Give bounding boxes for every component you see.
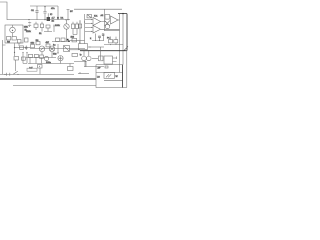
resistor R7 (71, 22, 74, 35)
capacitor C1 (31, 6, 39, 20)
wire crossing X (105, 21, 111, 27)
svg-text:MIC: MIC (24, 27, 28, 29)
resistor R25 (40, 55, 44, 64)
wire y73.6 segment (78, 72, 89, 74)
svg-text:D1: D1 (61, 18, 65, 20)
wire q3 drop (41, 52, 43, 55)
capacitor C8 (17, 40, 21, 46)
switch S1 (13, 71, 18, 74)
capacitor C2 (43, 6, 46, 20)
wire y57.5 (26, 57, 56, 59)
mark small (105, 66, 108, 68)
shield box (5, 25, 23, 43)
svg-text:C1: C1 (31, 10, 35, 12)
svg-text:1u: 1u (53, 45, 56, 47)
resistor R13 (31, 45, 35, 48)
node VCC vertical x68 (67, 10, 74, 21)
right lower box (104, 56, 117, 64)
svg-text:A2: A2 (101, 14, 104, 17)
svg-text:2k: 2k (52, 21, 55, 23)
resistor R19 with X (87, 15, 92, 18)
battery B1 (28, 22, 31, 27)
svg-text:k: k (90, 38, 92, 40)
node B (44, 19, 45, 20)
wire pair x23 x27 (22, 52, 28, 64)
resistor R17 (61, 38, 65, 41)
wire y41.5 (52, 41, 70, 43)
svg-text:47u: 47u (51, 8, 55, 10)
wire q4 drop (51, 52, 53, 58)
speaker box (104, 72, 115, 78)
IC U1 (47, 17, 50, 21)
resistor R15 (46, 44, 50, 47)
diode D1 (57, 17, 67, 21)
resistor R14 (36, 40, 40, 45)
wire x84.5 vertical (84, 14, 86, 44)
box empty (79, 44, 88, 50)
wire input top-left (0, 2, 29, 20)
svg-text:P1: P1 (107, 38, 110, 40)
wire main rail y19.6 (29, 19, 70, 21)
wire y44.6 (104, 44, 123, 46)
resistor R21 (109, 37, 113, 43)
transistor Q1 (10, 25, 16, 37)
wire y47.6 (15, 47, 31, 49)
connector J2 (87, 51, 92, 61)
wire x119.5 vertical (119, 14, 121, 73)
wire x79.5 drop (79, 41, 80, 44)
label box (27, 68, 37, 71)
wire bottom y74.4 (0, 73, 74, 76)
wire x58 drop (57, 6, 59, 20)
wire y61.5 (74, 61, 87, 67)
resistor R5 (40, 22, 43, 32)
wire y30.5 (105, 30, 120, 32)
resistor R18 (72, 38, 77, 42)
wire y58 right (92, 57, 98, 59)
svg-text:IC1: IC1 (94, 16, 98, 18)
resistor R12 (14, 57, 19, 72)
wire x58 (53, 44, 59, 56)
capacitor C3 (25, 38, 29, 42)
resistor R1a (7, 37, 11, 41)
input dots (91, 19, 92, 32)
cluster lower (38, 65, 43, 69)
svg-text:W: W (116, 76, 119, 78)
op-amp U2b (93, 26, 101, 34)
svg-text:4.7: 4.7 (52, 17, 56, 19)
svg-text:100n: 100n (46, 62, 52, 64)
resistor R27 (110, 37, 118, 46)
wire x100.5 (100, 47, 102, 60)
wire x40 drop (39, 68, 41, 74)
resistor R22 (70, 53, 78, 66)
wire dark y50.7 (80, 50, 127, 52)
transistor Q2 (64, 20, 69, 41)
right box left edge (104, 9, 106, 31)
transistor Q6 (44, 56, 48, 60)
meter M1 (58, 56, 63, 64)
capacitor C4 (44, 25, 52, 32)
wire y66.6 (84, 61, 104, 67)
wire y63.5 (28, 63, 74, 65)
wire x54 (54, 25, 55, 33)
wire top rail left (30, 5, 58, 7)
svg-text:9V: 9V (70, 11, 73, 13)
wire x80 vertical (79, 20, 81, 44)
wire center y48.5 (30, 48, 85, 50)
op-amp U3 (111, 16, 119, 24)
svg-text:Tr: Tr (80, 54, 82, 57)
wire y85.5 (13, 85, 96, 87)
wire left vertical (3, 40, 6, 74)
node A (28, 19, 29, 20)
svg-text:10k: 10k (31, 43, 35, 45)
wire dark top right (118, 13, 127, 51)
resistor R11 (20, 46, 24, 49)
svg-text:4u7: 4u7 (29, 68, 33, 70)
resistor R26 (99, 56, 104, 61)
svg-text:100k: 100k (55, 25, 61, 27)
resistor R23 (29, 54, 33, 63)
arrow diag (124, 46, 128, 50)
pot VR1 (64, 46, 70, 52)
transistor Q4 (49, 46, 55, 52)
resistor R16 (56, 38, 60, 41)
wire opamp inputs (85, 20, 93, 32)
connector J1 (82, 51, 87, 61)
wire top rail right (74, 8, 122, 10)
svg-text:AF: AF (98, 67, 101, 70)
bottom-right box (96, 50, 127, 88)
svg-text:IC: IC (50, 14, 53, 16)
wire y49.8 (70, 49, 81, 51)
resistor R8 (73, 22, 79, 35)
wire y47 right (88, 46, 104, 47)
resistor R6 (78, 22, 85, 29)
resistor R24 (35, 54, 39, 63)
svg-text:1k: 1k (39, 33, 42, 35)
transistor Q5 (105, 24, 109, 28)
transistor Q3 (39, 46, 45, 52)
svg-text:LS: LS (97, 77, 100, 79)
wire y40.5 right (70, 40, 85, 42)
wire x123 vertical (122, 14, 124, 65)
box small (68, 67, 74, 71)
wire node C vertical (14, 43, 15, 56)
svg-text:5k6: 5k6 (53, 54, 57, 56)
capacitor C5 (25, 46, 27, 51)
op-amp U2a (93, 18, 101, 26)
resistor R20 (105, 15, 110, 20)
junction cluster dark (67, 39, 70, 42)
wire verticals x95-103 (90, 34, 104, 42)
ground rail dark (0, 78, 96, 80)
wire opamp outputs (101, 22, 120, 30)
resistor R1b (12, 37, 16, 41)
wire u3 out (118, 19, 120, 21)
resistor R2 (34, 22, 38, 30)
